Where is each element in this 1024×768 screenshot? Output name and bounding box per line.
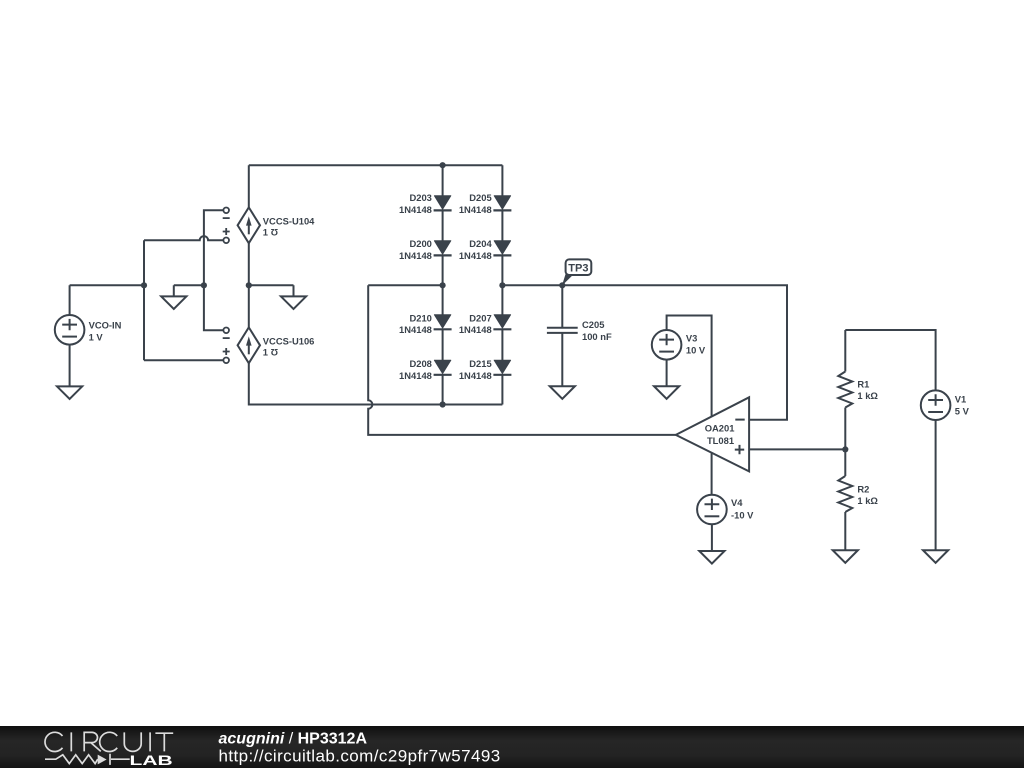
svg-text:1 V: 1 V bbox=[89, 332, 104, 343]
svg-text:1N4148: 1N4148 bbox=[399, 204, 432, 215]
svg-text:D207: D207 bbox=[469, 313, 491, 324]
svg-text:D215: D215 bbox=[469, 358, 491, 369]
svg-text:D204: D204 bbox=[469, 238, 492, 249]
svg-text:http://circuitlab.com/c29pfr7w: http://circuitlab.com/c29pfr7w57493 bbox=[219, 747, 501, 766]
svg-text:1N4148: 1N4148 bbox=[399, 370, 432, 381]
svg-text:R1: R1 bbox=[857, 378, 869, 389]
svg-text:VCCS-U104: VCCS-U104 bbox=[263, 215, 315, 226]
svg-text:VCCS-U106: VCCS-U106 bbox=[263, 335, 315, 346]
svg-text:TP3: TP3 bbox=[568, 262, 588, 274]
svg-text:V1: V1 bbox=[955, 394, 966, 405]
svg-text:100 nF: 100 nF bbox=[582, 331, 612, 342]
svg-text:acugnini / HP3312A: acugnini / HP3312A bbox=[219, 731, 368, 748]
svg-text:D200: D200 bbox=[409, 238, 431, 249]
svg-text:OA201: OA201 bbox=[705, 423, 735, 434]
svg-text:D203: D203 bbox=[409, 192, 431, 203]
svg-text:5 V: 5 V bbox=[955, 405, 970, 416]
svg-text:V4: V4 bbox=[731, 497, 743, 508]
svg-text:1N4148: 1N4148 bbox=[459, 324, 492, 335]
svg-text:V3: V3 bbox=[686, 332, 697, 343]
svg-text:1N4148: 1N4148 bbox=[459, 204, 492, 215]
svg-text:D208: D208 bbox=[409, 358, 431, 369]
svg-text:C205: C205 bbox=[582, 319, 604, 330]
svg-text:1N4148: 1N4148 bbox=[399, 250, 432, 261]
svg-text:1 Ʊ: 1 Ʊ bbox=[263, 227, 279, 238]
svg-text:R2: R2 bbox=[857, 483, 869, 494]
svg-text:-10 V: -10 V bbox=[731, 509, 754, 520]
svg-text:LAB: LAB bbox=[130, 752, 173, 768]
svg-text:10 V: 10 V bbox=[686, 345, 706, 356]
svg-text:TL081: TL081 bbox=[707, 435, 734, 446]
svg-text:VCO-IN: VCO-IN bbox=[89, 320, 122, 331]
svg-text:1N4148: 1N4148 bbox=[459, 370, 492, 381]
svg-text:1 Ʊ: 1 Ʊ bbox=[263, 347, 279, 358]
svg-text:D210: D210 bbox=[409, 313, 431, 324]
svg-text:1N4148: 1N4148 bbox=[459, 250, 492, 261]
svg-text:1 kΩ: 1 kΩ bbox=[857, 390, 878, 401]
svg-text:1 kΩ: 1 kΩ bbox=[857, 495, 878, 506]
svg-text:1N4148: 1N4148 bbox=[399, 324, 432, 335]
svg-text:D205: D205 bbox=[469, 192, 491, 203]
